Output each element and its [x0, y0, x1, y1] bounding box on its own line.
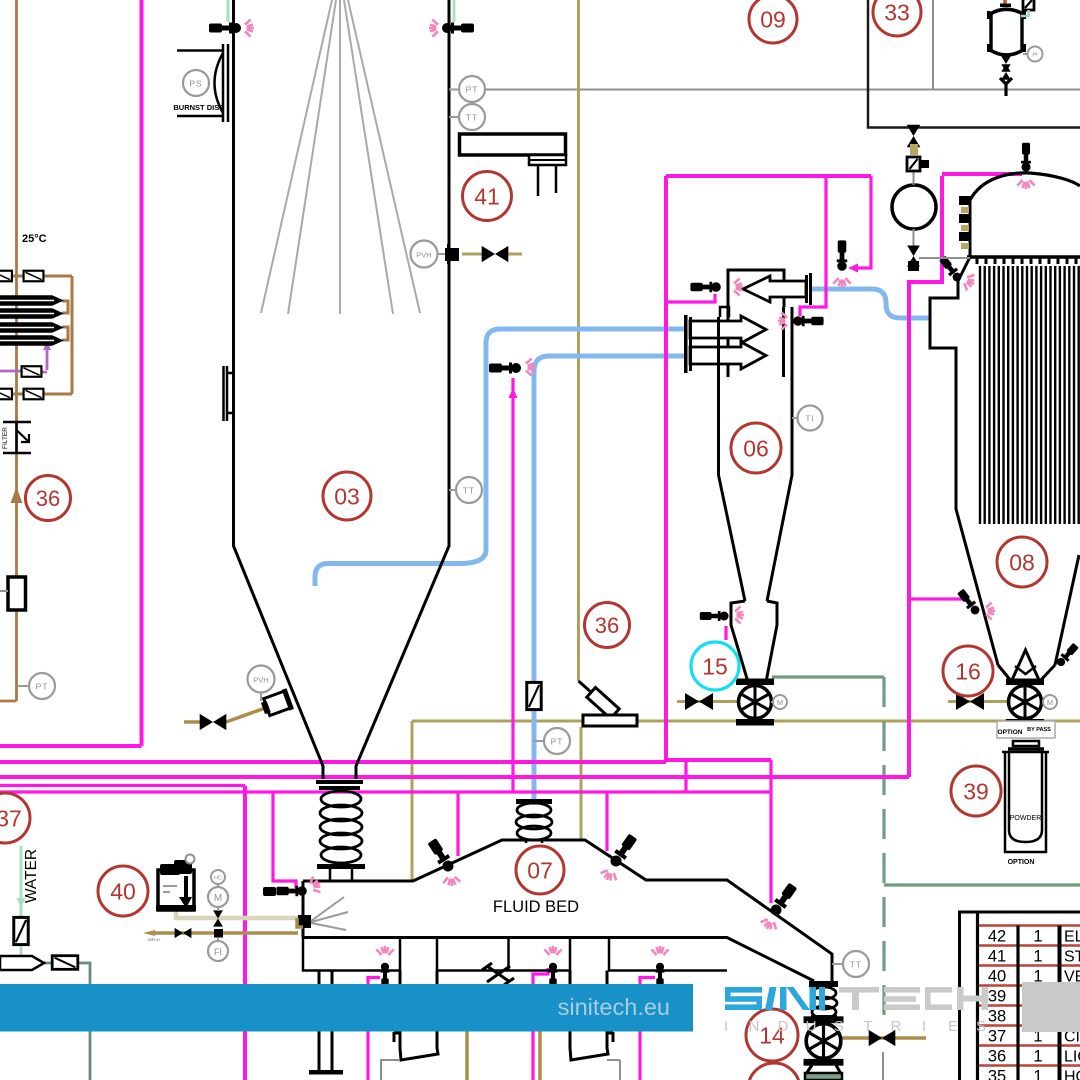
svg-text:M: M — [1047, 698, 1053, 707]
bag filter 08 dome — [970, 173, 1080, 200]
cyclone dip pipe valve — [793, 316, 823, 326]
svg-text:S: S — [834, 1018, 844, 1035]
circle label 36b — [585, 603, 630, 648]
RV16 motor M — [1043, 695, 1057, 709]
magenta cyclone loop left vertical — [664, 176, 668, 762]
olive exhaust header horizontal — [412, 720, 1080, 723]
bag filter right hopper wall — [1055, 555, 1079, 665]
svg-text:36: 36 — [595, 613, 619, 638]
svg-text:37: 37 — [0, 806, 22, 832]
svg-text:37: 37 — [988, 1028, 1006, 1046]
blower bottom line and valve — [913, 229, 915, 250]
svg-text:06: 06 — [743, 436, 769, 462]
TI instrument on cyclone — [792, 417, 797, 419]
roof spray valve 1 — [608, 833, 639, 870]
svg-text:42: 42 — [988, 928, 1006, 946]
FI instrument — [208, 941, 228, 961]
roof spray valve 2 — [768, 882, 799, 919]
circle label 14 — [746, 1009, 798, 1061]
circle label 07 — [516, 846, 564, 894]
magenta drop to deck valve 1 — [368, 978, 380, 1080]
sage green water mix line — [42, 963, 90, 1080]
magenta CIP vertical at left — [140, 0, 144, 746]
vessel feed orange — [1003, 0, 1007, 6]
nitrogen vessel top right — [990, 9, 1023, 55]
burst disc assembly — [177, 44, 228, 122]
magenta header H1 — [0, 744, 142, 748]
svg-text:PVH: PVH — [416, 251, 431, 260]
svg-text:S: S — [976, 1018, 986, 1035]
purple line valve — [22, 366, 42, 377]
fluid bed 07 roof outline — [303, 840, 832, 981]
fluid bed deck — [303, 938, 814, 982]
svg-text:I: I — [922, 1018, 926, 1035]
static mixer — [0, 956, 44, 970]
svg-text:PT: PT — [551, 737, 564, 747]
circle label 03 — [323, 472, 371, 520]
magenta bag filter riser — [909, 176, 942, 777]
vessel top right valve — [1023, 0, 1034, 10]
PT instrument blue line — [527, 682, 541, 709]
exhaust silencer item 41 — [460, 134, 566, 155]
chamber outlet flanges — [316, 780, 363, 784]
magenta to bag filter dome valve — [942, 172, 1022, 176]
cyclone cone drain valve — [700, 611, 729, 621]
PI instrument — [1023, 53, 1028, 55]
magenta drop to deck valve 3 — [640, 978, 655, 1080]
svg-text:sinitech.eu: sinitech.eu — [558, 994, 670, 1020]
gray redaction box over rows 38-39 — [1022, 982, 1080, 1032]
svg-text:41: 41 — [988, 948, 1006, 966]
svg-text:07: 07 — [527, 858, 553, 884]
cyclone inlet flange — [684, 315, 688, 373]
fluid bed discharge funnel 1 — [400, 971, 438, 1061]
flush line bowtie valve — [175, 928, 192, 938]
RV14 khaki bowtie — [869, 1030, 896, 1046]
bag filter plenum walls — [969, 199, 972, 257]
circle label 06 — [731, 423, 781, 473]
gray vertical boundary line — [932, 0, 934, 90]
olive drop to fluid bed plateau — [580, 727, 583, 841]
cyclone gas outlet arrow — [743, 276, 806, 302]
olive header vertical line — [577, 0, 580, 681]
svg-text:40: 40 — [110, 879, 136, 905]
bag filter shoulder valve — [938, 255, 964, 284]
plenum crossover damper — [482, 963, 514, 985]
circle label 37 — [0, 793, 30, 843]
svg-text:FILTER: FILTER — [2, 427, 9, 449]
blower top line and valves — [913, 171, 915, 185]
sage green RV15 vent line — [772, 675, 884, 678]
sage green dashed vertical — [882, 677, 885, 1023]
svg-text:POWDER: POWDER — [1010, 815, 1042, 822]
svg-text:36: 36 — [36, 486, 60, 511]
pale green water line — [20, 846, 23, 958]
filter cone right valve — [1055, 642, 1080, 668]
PT instrument brown line — [17, 685, 29, 687]
svg-text:39: 39 — [963, 779, 989, 805]
svg-text:M: M — [214, 893, 222, 904]
svg-text:08: 08 — [1009, 550, 1035, 576]
circle label 15 cyan — [691, 642, 739, 690]
svg-text:PI: PI — [1032, 53, 1038, 59]
svg-text:38: 38 — [988, 1008, 1006, 1026]
fluid bed outlet flange — [809, 981, 838, 987]
chamber bellows neck — [330, 869, 352, 881]
discharge bowtie valve vertical — [213, 910, 223, 926]
heat exchanger loop brown piping — [0, 276, 72, 394]
INDUSTRIES subtitle — [724, 1018, 986, 1035]
SINITECH logo TECH gray — [839, 987, 988, 1010]
magenta branch to duct injection valve — [856, 176, 871, 268]
circle label bottom edge partial — [748, 1063, 800, 1080]
olive rotary valve 16 stub — [948, 700, 1009, 703]
top spray valve right — [453, 0, 456, 22]
svg-text:M: M — [777, 698, 783, 707]
svg-text:R: R — [891, 1018, 902, 1035]
light blue duct A chamber to cyclone inlet 1 — [315, 329, 686, 586]
bag filter hopper outlet — [998, 665, 1055, 682]
TT instrument fluid bed outlet — [832, 963, 843, 965]
svg-text:OPTION: OPTION — [998, 729, 1023, 736]
PVH valve on chamber wall — [462, 253, 522, 256]
cyclone top spray valve — [690, 282, 720, 292]
svg-text:TI: TI — [805, 415, 814, 424]
svg-text:LIQ: LIQ — [1064, 1049, 1080, 1066]
svg-text:TT: TT — [850, 960, 862, 970]
svg-text:OPTION: OPTION — [1008, 859, 1035, 866]
OPTION BY PASS box — [997, 721, 1055, 738]
magenta drop to deck valve 2 — [533, 968, 548, 1080]
deck spray valve 3 — [655, 963, 664, 989]
damper on olive header — [579, 681, 620, 717]
fluid bed support legs — [319, 971, 332, 1072]
magenta drop to roof valve 1 — [456, 792, 459, 856]
SINITECH logo SINI blue — [725, 987, 825, 1010]
svg-text:E: E — [948, 1018, 958, 1035]
fluid bed discharge funnel 2 — [570, 971, 608, 1061]
chamber outlet bellows — [320, 791, 362, 863]
bag filter left wall with inlet box — [930, 257, 998, 665]
PS instrument — [183, 70, 209, 96]
magenta drop V245 — [243, 786, 247, 1080]
magenta header H2 — [0, 760, 666, 764]
air filter symbol — [3, 422, 31, 453]
magenta branch to cyclone top valve — [666, 294, 715, 302]
khaki drain line a — [465, 984, 469, 1080]
svg-text:1: 1 — [1033, 1048, 1042, 1066]
circle label 33 — [873, 0, 921, 36]
magenta connector V686 — [684, 762, 687, 792]
light blue duct C cyclone outlet to bag filter — [809, 289, 931, 318]
svg-text:ELE: ELE — [1064, 929, 1080, 946]
svg-text:STE: STE — [1064, 949, 1080, 966]
magenta header H2b — [666, 758, 771, 762]
svg-text:T: T — [863, 1018, 872, 1035]
cyclone vortex finder — [720, 307, 729, 317]
TT instrument chamber mid — [449, 489, 456, 491]
svg-text:HC: HC — [214, 876, 222, 882]
heat exchanger HX tubes — [0, 296, 62, 345]
svg-text:U: U — [806, 1018, 817, 1035]
magenta header H3 — [0, 775, 909, 779]
svg-text:1: 1 — [1033, 948, 1042, 966]
bag filter dome spray valve — [1021, 143, 1031, 172]
fluid bed left wall — [302, 881, 305, 938]
svg-text:03: 03 — [334, 484, 360, 510]
purple condensate line — [0, 348, 47, 372]
svg-text:PVH: PVH — [253, 676, 268, 685]
magenta stub below cyclone cone valve — [724, 626, 727, 640]
svg-text:PS: PS — [189, 79, 202, 89]
deck spray valve 2 — [548, 963, 557, 989]
duct injection valve above blue C — [837, 240, 847, 270]
deck spray valve 1 — [380, 963, 389, 989]
water valve — [14, 917, 28, 944]
olive rotary valve 15 stub — [677, 700, 739, 703]
magenta branch to filter cone valve — [909, 597, 963, 600]
RV15 motor M — [773, 695, 787, 709]
rotary valve 16 — [1007, 679, 1044, 725]
RV14 bellows — [811, 987, 837, 1018]
M motor instrument — [208, 887, 228, 907]
svg-text:HO: HO — [1064, 1069, 1080, 1080]
olive drop to fluid bed left — [411, 721, 414, 880]
svg-text:40: 40 — [988, 968, 1006, 986]
svg-text:I: I — [724, 1018, 728, 1035]
svg-text:FLUID BED: FLUID BED — [493, 898, 579, 916]
edge valve top — [0, 271, 12, 282]
rotary valve 14 — [804, 1017, 843, 1065]
vessel bottom valves — [1001, 56, 1010, 71]
bag filter tube sheet — [967, 255, 1080, 259]
svg-text:39: 39 — [988, 988, 1006, 1006]
RV14 discharge chute — [806, 1065, 841, 1074]
circle label 08 — [997, 537, 1047, 587]
brown supply line — [0, 0, 17, 701]
dark khaki flush line — [152, 931, 298, 935]
HC instrument — [211, 870, 225, 884]
svg-text:WATER: WATER — [23, 849, 40, 903]
roof spray valve 0 left slope — [426, 837, 456, 874]
magenta branch to cyclone dip valve — [800, 176, 826, 316]
feed spray nozzle block — [298, 915, 311, 928]
svg-text:1: 1 — [1033, 928, 1042, 946]
RV14 green outlet box — [805, 1073, 842, 1080]
svg-text:1: 1 — [1033, 1068, 1042, 1080]
circle label 09 — [749, 0, 797, 43]
fluid bed wall spray valve — [263, 887, 276, 896]
bag filter bags — [980, 266, 1079, 524]
magenta drop to roof valve 2 — [605, 792, 608, 851]
light blue duct B fluid bed to cyclone inlet 2 — [534, 356, 686, 805]
green line valve — [52, 956, 78, 970]
magenta branch to fluid bed wall nozzle — [273, 792, 296, 888]
top spray valve left — [227, 0, 230, 22]
edge valve bottom — [0, 389, 12, 400]
svg-text:33: 33 — [884, 0, 910, 26]
rotary valve 15 — [737, 679, 774, 725]
brown flow arrow — [11, 487, 23, 503]
svg-text:15: 15 — [702, 654, 728, 680]
fluid bed plenum boxes — [303, 938, 727, 971]
svg-text:16: 16 — [955, 659, 981, 685]
spray dryer chamber 03 walls — [234, 0, 450, 779]
flow element square — [214, 929, 223, 938]
circle label 40 — [98, 866, 148, 916]
svg-text:25°C: 25°C — [22, 233, 47, 245]
gray drain stub bottom right — [882, 1052, 884, 1080]
svg-text:D: D — [778, 1018, 789, 1035]
fan circle blower — [892, 185, 936, 229]
HX isolation valve top — [24, 271, 44, 282]
chamber sample valve on magenta riser — [489, 363, 521, 374]
magenta header H5 — [0, 790, 771, 793]
svg-text:PT: PT — [466, 85, 479, 95]
RV15 isolation bowtie — [685, 693, 713, 710]
filter cone spray valve — [956, 588, 982, 617]
magenta riser to chamber valve — [511, 378, 514, 792]
gray header line across sheet — [458, 89, 1080, 91]
svg-text:41: 41 — [474, 184, 500, 210]
circle label 36 — [26, 476, 71, 521]
svg-text:N: N — [749, 1018, 760, 1035]
POWDER container — [1002, 741, 1049, 852]
svg-text:36: 36 — [988, 1048, 1006, 1066]
magenta cyclone loop top — [666, 174, 871, 178]
svg-text:09: 09 — [760, 7, 786, 33]
bag filter side nozzles — [959, 196, 971, 249]
circle label 39 — [951, 766, 1001, 816]
PT instrument chamber top — [449, 89, 459, 91]
svg-text:BURNST DISC: BURNST DISC — [173, 103, 225, 112]
TT instrument chamber top — [449, 116, 459, 118]
circle label 16 — [943, 646, 993, 696]
cyclone 06 top box — [728, 270, 784, 377]
PVH instrument chamber wall — [437, 253, 445, 255]
magenta drop to slope valve 2 — [769, 760, 772, 903]
inline device on brown line — [8, 577, 26, 610]
svg-text:WFI in: WFI in — [148, 937, 160, 942]
svg-text:35: 35 — [988, 1068, 1006, 1080]
sage green bottom header — [884, 883, 1080, 886]
spray fan lines inside chamber 03 — [261, 0, 420, 314]
circle label 41 — [463, 172, 512, 221]
cyclone inlet arrow 2 — [690, 342, 766, 369]
svg-text:TT: TT — [466, 113, 478, 123]
filter fluidizer cone — [1012, 650, 1039, 680]
cyclone body and cone — [719, 307, 793, 682]
magenta header H4 — [0, 784, 245, 787]
cyclone inlet arrow 1 — [690, 316, 766, 343]
svg-text:PT: PT — [36, 682, 49, 692]
RV16 isolation bowtie — [956, 693, 984, 710]
khaki discharge line of RV14 — [840, 1036, 926, 1040]
cone PVH vent valve khaki — [184, 707, 268, 722]
area 33 boundary box — [868, 0, 1080, 128]
parts list table — [960, 912, 1080, 1080]
svg-text:FI: FI — [214, 947, 222, 957]
fluid bed inlet bellows center — [516, 799, 552, 804]
PVH instrument cone — [248, 666, 275, 693]
liquid feed pump 40 — [156, 855, 196, 912]
left wall manway bracket — [224, 366, 234, 421]
khaki drain line b — [538, 984, 542, 1080]
pale khaki pump discharge — [176, 908, 298, 918]
HX isolation valve bottom — [24, 389, 44, 400]
blue footer banner — [0, 984, 693, 1032]
svg-text:TT: TT — [463, 486, 475, 496]
svg-text:BY PASS: BY PASS — [1027, 727, 1051, 733]
